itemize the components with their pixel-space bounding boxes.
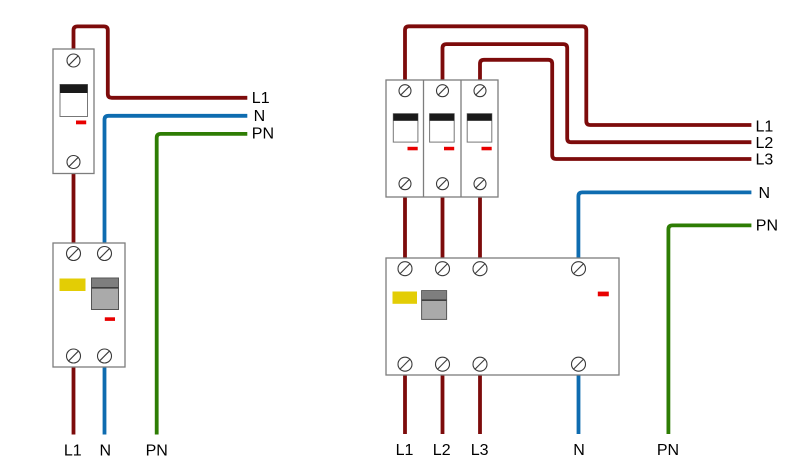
wire L3: MCB pole 3 bottom to RCD terminal 3 [478,194,482,261]
terminal screw F1 top-left [67,247,81,261]
svg-text:N: N [573,442,585,459]
indicator (red) Q2 pole1 [408,147,418,151]
label L1 (left diagram side) [252,90,270,107]
svg-text:L2: L2 [756,135,774,152]
wire L1 out: RCD bottom-left down [72,364,76,435]
terminal screw Q2 pole2 bottom [437,178,449,190]
terminal screw F1 bottom-left [67,349,81,363]
indicator (red) F1 [105,317,115,321]
wire N: label N to RCD terminal 4 [578,192,751,261]
label L1 (right diagram bottom) [396,442,414,459]
terminal screw F2 bottom 4 (neutral) [572,357,586,371]
wire PN: label PN down to bottom PN [157,134,248,435]
toggle switch Q2 pole1 [393,114,418,142]
terminal screw F2 bottom 2 [436,357,450,371]
label L1 (left diagram bottom) [64,442,82,459]
svg-text:L1: L1 [252,90,270,107]
label PN (left diagram side) [252,126,274,143]
label PN (right diagram side) [756,217,778,234]
wire L2 out: RCD bottom terminal 2 down [441,372,445,434]
switch lever (gray) F1 [92,278,119,310]
terminal screw Q1 bottom [67,156,80,169]
wire L1: MCB pole 1 bottom to RCD terminal 1 [403,194,407,261]
breaker Q2: 3-pole MCB body [386,80,498,197]
breaker Q1: 1-pole MCB body [53,49,94,174]
svg-text:PN: PN [146,442,168,459]
svg-text:PN: PN [756,217,778,234]
terminal screw Q2 pole3 top [474,85,486,97]
test button (yellow) F2 [393,292,418,304]
wire L1 feed: top of 1-pole MCB to label L1 [74,26,248,97]
RCD F1: 2-pole residual current device body [53,243,125,367]
terminal screw F2 top 2 [436,262,450,276]
label N (left diagram bottom) [100,442,112,459]
svg-text:L1: L1 [756,118,774,135]
terminal screw F1 bottom-right [98,349,112,363]
wire L1 out: RCD bottom terminal 1 down [403,372,407,434]
svg-text:N: N [759,185,771,202]
RCD F2: 4-pole residual current device body [386,258,619,375]
label L3 (right diagram bottom) [471,442,489,459]
wire L1 feed: top of 3-pole MCB pole 1 to label L1 [405,26,751,125]
terminal screw F2 top 4 (neutral) [572,262,586,276]
label L1 (right diagram side) [756,118,774,135]
svg-text:L1: L1 [64,442,82,459]
test button (yellow) F1 [60,279,86,292]
indicator (red) Q2 pole2 [444,147,454,151]
terminal screw F2 bottom 1 [398,357,412,371]
indicator (red) Q1 [76,121,86,125]
wire PN: label PN down to bottom PN (right diagram) [668,225,751,434]
indicator (red) F2 [598,292,609,297]
wire N: label N to RCD top-right terminal [105,116,248,246]
svg-text:N: N [254,108,266,125]
label N (left diagram side) [254,108,266,125]
terminal screw F2 top 1 [398,262,412,276]
label PN (right diagram bottom) [657,442,679,459]
wire N out: RCD bottom-right down [103,364,107,435]
terminal screw F1 top-right [98,247,112,261]
svg-text:PN: PN [252,126,274,143]
svg-text:N: N [100,442,112,459]
wire L3 feed: top of 3-pole MCB pole 3 to label L3 [480,60,751,159]
terminal screw F2 bottom 3 [473,357,487,371]
wire N out: RCD bottom terminal 4 down [577,372,581,434]
terminal screw Q2 pole2 top [437,85,449,97]
terminal screw Q2 pole1 top [399,85,411,97]
wire L1: MCB bottom to RCD top-left terminal [72,170,76,246]
label N (right diagram bottom) [573,442,585,459]
toggle switch Q1 [60,85,88,117]
toggle switch Q2 pole3 [467,114,492,142]
svg-text:L1: L1 [396,442,414,459]
svg-text:PN: PN [657,442,679,459]
switch lever (gray) F2 [422,291,447,320]
wire L2: MCB pole 2 bottom to RCD terminal 2 [441,194,445,261]
svg-text:L2: L2 [433,442,451,459]
svg-text:L3: L3 [756,151,774,168]
wire L3 out: RCD bottom terminal 3 down [478,372,482,434]
indicator (red) Q2 pole3 [482,147,492,151]
label L2 (right diagram side) [756,135,774,152]
label N (right diagram side) [759,185,771,202]
label L3 (right diagram side) [756,151,774,168]
label PN (left diagram bottom) [146,442,168,459]
toggle switch Q2 pole2 [430,114,455,142]
terminal screw Q2 pole1 bottom [399,178,411,190]
svg-text:L3: L3 [471,442,489,459]
terminal screw Q2 pole3 bottom [474,178,486,190]
wire L2 feed: top of 3-pole MCB pole 2 to label L2 [443,44,752,142]
label L2 (right diagram bottom) [433,442,451,459]
terminal screw F2 top 3 [473,262,487,276]
terminal screw Q1 top [67,54,80,67]
